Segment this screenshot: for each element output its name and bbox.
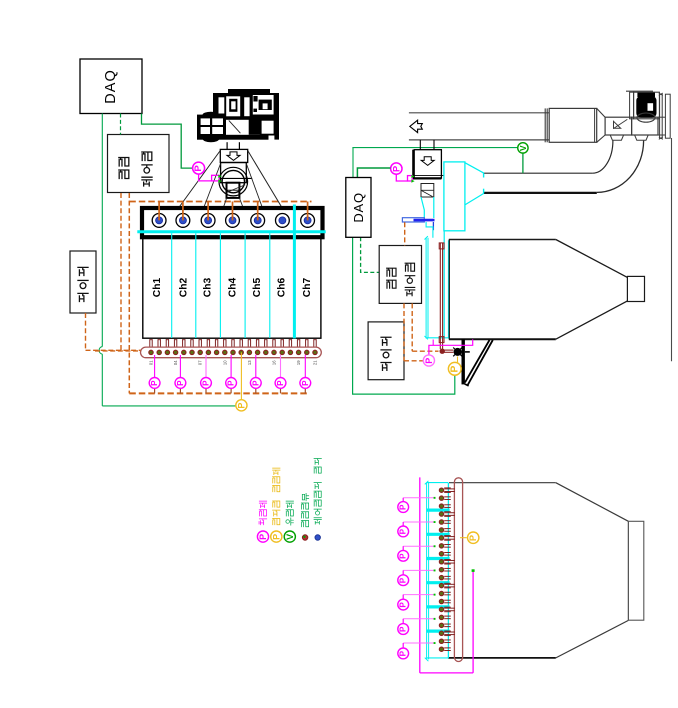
svg-text:21: 21 xyxy=(313,360,318,365)
svg-text:19: 19 xyxy=(296,360,301,365)
svg-text:P: P xyxy=(399,528,408,534)
svg-text:P: P xyxy=(399,504,408,510)
svg-text:P: P xyxy=(399,553,408,559)
svg-text:P: P xyxy=(202,380,211,386)
svg-text:P: P xyxy=(391,166,401,172)
svg-text:P: P xyxy=(227,380,236,386)
svg-text:P: P xyxy=(468,535,478,541)
svg-text:V: V xyxy=(518,145,528,151)
svg-text:Ch6: Ch6 xyxy=(277,278,288,298)
svg-text:P: P xyxy=(276,380,285,386)
svg-text:04: 04 xyxy=(173,360,178,365)
svg-text:Ch5: Ch5 xyxy=(252,278,263,298)
svg-text:Ch2: Ch2 xyxy=(178,278,189,298)
svg-text:DAQ: DAQ xyxy=(103,69,119,103)
svg-text:P: P xyxy=(301,380,310,386)
svg-text:P: P xyxy=(176,380,185,386)
svg-text:P: P xyxy=(424,358,434,364)
svg-text:Ch1: Ch1 xyxy=(152,278,163,298)
svg-text:P: P xyxy=(399,650,408,656)
svg-text:Ch3: Ch3 xyxy=(203,278,214,298)
svg-text:P: P xyxy=(150,380,159,386)
svg-text:10: 10 xyxy=(222,360,227,365)
svg-text:P: P xyxy=(399,577,408,583)
svg-text:P: P xyxy=(399,626,408,632)
svg-text:V: V xyxy=(285,534,295,540)
svg-text:P: P xyxy=(449,365,460,372)
svg-text:P: P xyxy=(236,403,246,409)
svg-text:Ch7: Ch7 xyxy=(302,278,313,298)
svg-text:P: P xyxy=(258,534,268,540)
svg-text:P: P xyxy=(193,165,204,172)
svg-text:16: 16 xyxy=(272,360,277,365)
svg-text:P: P xyxy=(399,602,408,608)
svg-text:07: 07 xyxy=(198,360,203,365)
svg-text:01: 01 xyxy=(149,360,154,365)
svg-text:Ch4: Ch4 xyxy=(227,278,238,298)
svg-text:13: 13 xyxy=(247,360,252,365)
svg-text:DAQ: DAQ xyxy=(351,192,366,223)
svg-text:P: P xyxy=(251,380,260,386)
svg-text:P: P xyxy=(271,534,281,540)
